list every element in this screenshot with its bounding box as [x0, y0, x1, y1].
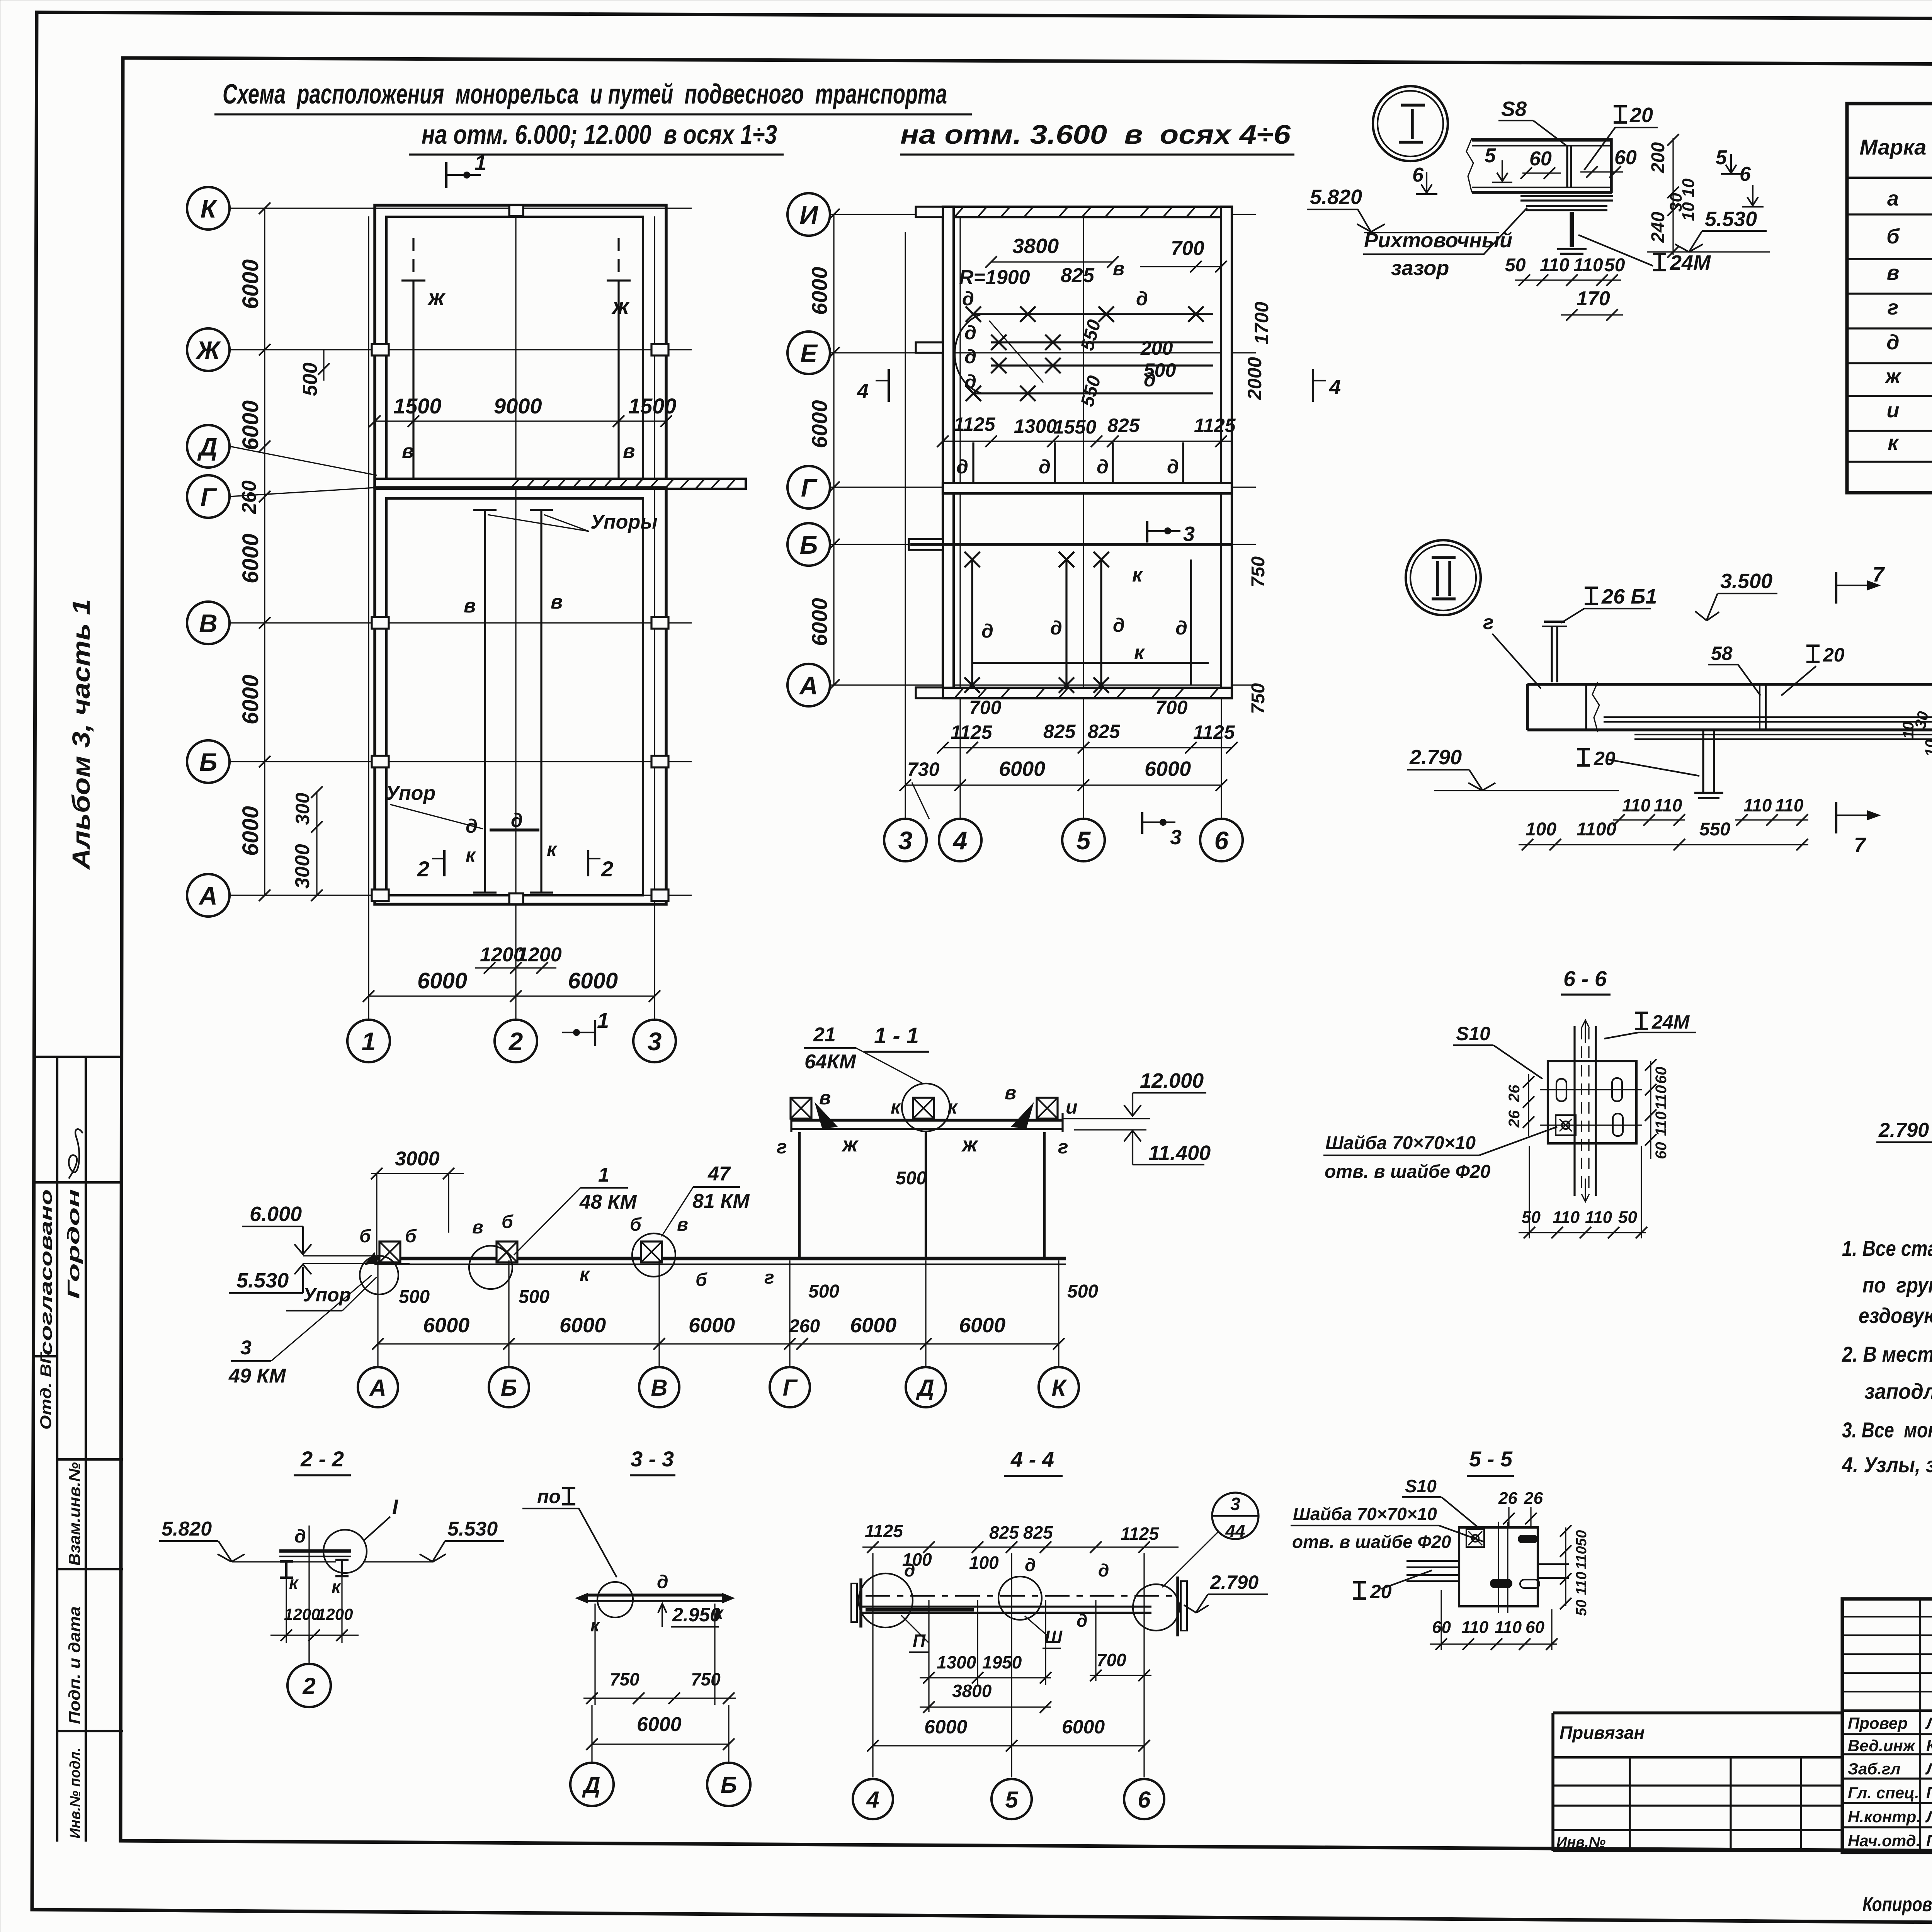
- svg-text:550: 550: [1699, 819, 1730, 840]
- svg-text:б: б: [630, 1214, 642, 1235]
- svg-text:ездовую поверхность краска: ездовую поверхность краска не наносится.: [1859, 1303, 1932, 1328]
- svg-text:S8: S8: [1501, 97, 1527, 121]
- svg-text:47: 47: [707, 1163, 731, 1185]
- svg-text:к: к: [1132, 564, 1143, 586]
- plan1 dim 500 at Zh: [323, 350, 324, 381]
- svg-text:в: в: [819, 1087, 831, 1109]
- svg-text:48 КМ: 48 КМ: [579, 1191, 637, 1213]
- 5-5 plate: [1459, 1527, 1538, 1606]
- svg-text:1200: 1200: [284, 1605, 320, 1623]
- axis circle 6b: [1200, 819, 1243, 861]
- svg-text:6000: 6000: [999, 757, 1045, 781]
- 2-2 axis circle 2: [308, 1635, 310, 1664]
- svg-text:1125: 1125: [954, 413, 996, 435]
- 6-6 dims right rotated: [1650, 1061, 1651, 1159]
- svg-text:3 - 3: 3 - 3: [631, 1447, 674, 1471]
- svg-text:100: 100: [969, 1553, 999, 1573]
- plan2 right wall: [1221, 207, 1232, 698]
- svg-text:Альбом 3, часть 1: Альбом 3, часть 1: [67, 599, 95, 870]
- svg-text:Б: Б: [199, 748, 218, 776]
- svg-text:И: И: [799, 201, 818, 229]
- svg-text:49 КМ: 49 КМ: [228, 1365, 286, 1387]
- svg-text:в: в: [677, 1214, 688, 1235]
- svg-text:6000: 6000: [689, 1314, 735, 1337]
- svg-text:3000: 3000: [395, 1148, 440, 1170]
- svg-text:6000: 6000: [238, 259, 263, 309]
- svg-text:Лазарева: Лазарева: [1925, 1808, 1932, 1826]
- plan2 lower rail: [973, 392, 1213, 394]
- svg-text:д: д: [1167, 456, 1179, 478]
- svg-text:Взам.инв.№: Взам.инв.№: [65, 1462, 83, 1566]
- svg-text:2.790: 2.790: [1210, 1571, 1259, 1593]
- plan2 axis column 4: [959, 216, 961, 819]
- svg-text:4: 4: [952, 826, 968, 855]
- svg-text:к: к: [947, 1096, 958, 1118]
- axis circle B2: [787, 523, 830, 566]
- svg-text:д: д: [964, 371, 976, 393]
- svg-text:81 КМ: 81 КМ: [692, 1190, 750, 1213]
- svg-text:6000: 6000: [807, 267, 832, 315]
- svg-text:1300: 1300: [1014, 415, 1057, 437]
- plan2 axis line E: [830, 352, 1256, 353]
- detail II marker circle: [1406, 540, 1481, 615]
- axis circle 5b: [1062, 819, 1105, 861]
- svg-text:3: 3: [240, 1337, 252, 1359]
- detail II label I26B1: [1585, 588, 1598, 604]
- svg-text:500: 500: [399, 1287, 430, 1307]
- 5-5 label I20: [1353, 1582, 1366, 1599]
- 4-4 end plates: [859, 1578, 862, 1628]
- plan2 leader 3 to 730: [912, 782, 929, 819]
- svg-text:Заб.гл: Заб.гл: [1848, 1760, 1901, 1778]
- svg-text:2: 2: [302, 1673, 315, 1699]
- svg-text:в: в: [1887, 261, 1900, 284]
- svg-text:в: в: [402, 440, 414, 463]
- svg-text:а: а: [1887, 187, 1899, 210]
- svg-text:50: 50: [1573, 1530, 1590, 1546]
- svg-text:1500: 1500: [628, 394, 677, 418]
- svg-text:д: д: [657, 1572, 668, 1592]
- svg-text:5.530: 5.530: [236, 1269, 289, 1292]
- plan1 axis column line 1: [368, 216, 369, 1020]
- svg-text:ж: ж: [841, 1133, 859, 1156]
- svg-text:64КМ: 64КМ: [804, 1051, 857, 1073]
- svg-text:1. Все стальные конструкции: 1. Все стальные конструкции окрасить мас…: [1842, 1236, 1932, 1260]
- 1-1 axis circle A: [358, 1367, 398, 1407]
- plan1 beam d cross: [490, 828, 539, 832]
- svg-text:700: 700: [1155, 697, 1188, 718]
- svg-text:50: 50: [1573, 1600, 1590, 1616]
- svg-text:58: 58: [1711, 643, 1733, 664]
- svg-text:6000: 6000: [417, 968, 467, 993]
- svg-text:50: 50: [1604, 255, 1625, 276]
- svg-text:б: б: [1886, 225, 1900, 248]
- title block frame: [1842, 1599, 1932, 1852]
- svg-text:3: 3: [1230, 1494, 1240, 1514]
- plan1 axis line Zh: [230, 349, 692, 350]
- plan2 vertical dim chain: [833, 214, 834, 685]
- 1-1 upper beam el12: [791, 1119, 1063, 1122]
- svg-text:6000: 6000: [850, 1314, 896, 1337]
- 4-4 rail dashdot: [866, 1595, 1175, 1597]
- svg-text:260: 260: [789, 1316, 820, 1337]
- svg-text:I: I: [392, 1495, 398, 1519]
- plan1 upper block walls: [375, 205, 666, 488]
- svg-text:6: 6: [1412, 164, 1424, 186]
- plan1 wall at G with hatch: [375, 479, 746, 489]
- detail I label I24M: [1653, 254, 1666, 270]
- svg-text:в: в: [551, 591, 563, 613]
- detail I label I20: [1614, 106, 1627, 122]
- svg-text:3.500: 3.500: [1720, 570, 1772, 593]
- svg-text:Капустин: Капустин: [1926, 1736, 1932, 1755]
- plan1 dim 300 3000: [316, 792, 317, 895]
- svg-text:д: д: [981, 620, 993, 642]
- plan2 section flag 4 left: [888, 369, 890, 402]
- svg-text:6000: 6000: [959, 1314, 1005, 1337]
- svg-text:Г: Г: [801, 473, 818, 502]
- svg-text:г: г: [764, 1267, 774, 1288]
- svg-text:1550: 1550: [1053, 416, 1096, 438]
- 1-1 columns: [798, 1132, 801, 1259]
- svg-text:110: 110: [1653, 1111, 1670, 1136]
- svg-text:Письман: Письман: [1926, 1832, 1932, 1850]
- svg-text:1125: 1125: [1193, 721, 1235, 743]
- svg-text:110: 110: [1573, 255, 1603, 276]
- svg-text:Упоры: Упоры: [590, 511, 658, 533]
- plan2 axis column 5: [1083, 216, 1084, 819]
- svg-text:заподлица с основным металл: заподлица с основным металлом.: [1864, 1379, 1932, 1403]
- plan1 wall pier marks: [372, 344, 389, 355]
- axis circle G2: [787, 466, 830, 509]
- plan1 dim 6000 6000 bottom: [369, 995, 655, 997]
- plan1 lower beams k: [484, 510, 486, 893]
- detail I stiffener S8: [1566, 146, 1568, 187]
- svg-text:В: В: [199, 609, 218, 638]
- axis circle 3: [633, 1020, 676, 1062]
- svg-text:к: к: [1888, 431, 1899, 454]
- svg-text:6: 6: [1138, 1787, 1151, 1813]
- svg-text:д: д: [1886, 331, 1899, 354]
- svg-text:60: 60: [1653, 1067, 1670, 1084]
- svg-text:6000: 6000: [1145, 757, 1191, 781]
- svg-text:зазор: зазор: [1391, 257, 1449, 280]
- svg-text:д: д: [1025, 1555, 1036, 1575]
- svg-text:Ж: Ж: [195, 336, 221, 364]
- svg-text:6000: 6000: [238, 400, 263, 450]
- svg-text:24М: 24М: [1651, 1011, 1690, 1033]
- svg-text:9000: 9000: [494, 394, 542, 418]
- 6-6 plate: [1548, 1061, 1636, 1143]
- svg-text:10: 10: [1922, 740, 1932, 757]
- axis circle B: [187, 740, 230, 783]
- svg-text:6.000: 6.000: [250, 1202, 302, 1226]
- svg-text:на отм. 6.000; 12.000 в осях: на отм. 6.000; 12.000 в осях 1÷3: [422, 119, 777, 150]
- svg-text:ж: ж: [427, 285, 446, 310]
- svg-text:110: 110: [1553, 1208, 1580, 1227]
- svg-text:по: по: [537, 1486, 561, 1507]
- svg-text:12.000: 12.000: [1140, 1069, 1204, 1092]
- svg-text:в: в: [1113, 258, 1124, 279]
- plan2 axis line A2: [830, 684, 1256, 685]
- svg-text:2 - 2: 2 - 2: [300, 1447, 344, 1471]
- svg-text:3: 3: [898, 826, 913, 855]
- svg-text:21: 21: [813, 1024, 836, 1046]
- svg-text:110: 110: [1585, 1208, 1612, 1227]
- svg-text:б: б: [359, 1226, 371, 1247]
- 6-6 label I24M: [1635, 1013, 1648, 1029]
- svg-text:110: 110: [1540, 255, 1570, 276]
- plan1 axis line D: [230, 446, 377, 475]
- svg-text:170: 170: [1577, 287, 1610, 310]
- svg-text:6000: 6000: [924, 1716, 967, 1738]
- plan2 left wall: [943, 207, 954, 698]
- svg-text:260: 260: [238, 480, 260, 514]
- svg-text:1500: 1500: [393, 394, 442, 418]
- svg-text:1125: 1125: [1121, 1524, 1159, 1544]
- svg-text:S10: S10: [1405, 1476, 1437, 1496]
- plan2 pilasters: [916, 207, 943, 217]
- svg-text:300: 300: [292, 793, 313, 825]
- axis circle 1: [347, 1020, 390, 1062]
- svg-text:500: 500: [1144, 359, 1176, 381]
- svg-text:В: В: [651, 1375, 667, 1401]
- detail I beam g top flange: [1472, 138, 1612, 142]
- left margin stamp table lines: [33, 1056, 123, 1058]
- svg-text:К: К: [1052, 1375, 1068, 1401]
- svg-text:110: 110: [1573, 1571, 1590, 1595]
- detail I beam g bottom flange: [1472, 187, 1611, 188]
- 6-6 slots and washer: [1556, 1079, 1566, 1101]
- 4-4 projection lines: [928, 1600, 929, 1712]
- plan1 vertical dim chain: [264, 208, 265, 895]
- svg-text:д: д: [964, 346, 976, 367]
- svg-text:д: д: [1039, 456, 1051, 478]
- svg-text:6000: 6000: [807, 400, 832, 448]
- 1-1 axis circle V: [639, 1367, 679, 1407]
- svg-text:2: 2: [601, 857, 613, 881]
- plan1 section flag 1 top: [445, 162, 447, 188]
- 3-3 beam: [587, 1594, 723, 1597]
- svg-text:5: 5: [1077, 826, 1091, 855]
- 4-4 bubble 3/44: [1212, 1493, 1259, 1539]
- svg-text:к: к: [580, 1264, 590, 1285]
- svg-text:4: 4: [866, 1787, 879, 1813]
- svg-text:110: 110: [1654, 795, 1682, 815]
- svg-text:5.530: 5.530: [447, 1518, 498, 1540]
- plan1 axis column line 3: [654, 216, 655, 1020]
- detail II section mark 7 top: [1835, 572, 1837, 604]
- svg-text:Упор: Упор: [303, 1284, 351, 1306]
- svg-text:R=1900: R=1900: [959, 266, 1030, 289]
- svg-text:А: А: [799, 671, 818, 700]
- svg-text:Левина: Левина: [1925, 1714, 1932, 1732]
- svg-text:1300: 1300: [937, 1652, 976, 1672]
- svg-text:100: 100: [1526, 819, 1556, 840]
- detail I beam end plate: [1610, 138, 1613, 193]
- plan1 axis line K: [230, 207, 692, 209]
- svg-text:500: 500: [808, 1281, 839, 1302]
- svg-text:д: д: [1113, 614, 1125, 636]
- svg-text:д: д: [1050, 617, 1062, 639]
- svg-text:Д: Д: [582, 1772, 600, 1798]
- svg-text:3. Все монтажные соединения: 3. Все монтажные соединения на болтах и …: [1842, 1418, 1932, 1442]
- svg-text:50: 50: [1618, 1208, 1637, 1227]
- svg-text:500: 500: [896, 1168, 927, 1189]
- 1-1 axis circle G: [770, 1367, 810, 1407]
- svg-text:10 10: 10 10: [1679, 178, 1698, 221]
- plan2 rail curve R1900: [955, 314, 981, 393]
- axis circle 2: [495, 1020, 537, 1062]
- svg-text:60: 60: [1529, 148, 1552, 170]
- plan1 monorail beam Zh right: [617, 281, 619, 479]
- svg-text:825: 825: [1043, 721, 1076, 742]
- detail I rail I24M: [1570, 212, 1574, 247]
- svg-text:д: д: [962, 288, 974, 310]
- 4-4 axis circles 4 5 6: [853, 1779, 893, 1819]
- 2-2 detail circle and label I: [323, 1530, 367, 1573]
- svg-text:к: к: [466, 844, 476, 866]
- 4-4 projection lines: [872, 1553, 873, 1777]
- svg-text:и: и: [1066, 1096, 1078, 1118]
- axis circle Zh: [187, 328, 230, 371]
- plan1 monorail beam Zh left: [412, 281, 414, 479]
- svg-text:Пронин: Пронин: [1926, 1784, 1932, 1802]
- svg-text:825: 825: [1088, 721, 1121, 742]
- plan2 upper rail top: [973, 313, 1213, 315]
- svg-text:7: 7: [1872, 563, 1885, 586]
- svg-text:д: д: [511, 810, 523, 831]
- plan1 axis line B: [230, 761, 692, 762]
- svg-text:1125: 1125: [865, 1521, 903, 1541]
- 1-1 axis circle K: [1039, 1367, 1079, 1407]
- svg-text:6000: 6000: [423, 1314, 469, 1337]
- plan1 axis line G: [230, 488, 375, 497]
- svg-text:6000: 6000: [1062, 1716, 1105, 1738]
- svg-text:4: 4: [1329, 376, 1341, 399]
- plan1 lower block walls: [375, 488, 666, 904]
- svg-text:в: в: [623, 440, 635, 463]
- axis circle G: [187, 475, 230, 518]
- svg-text:Отд. ВГ: Отд. ВГ: [37, 1351, 54, 1430]
- svg-text:700: 700: [1097, 1650, 1126, 1670]
- svg-text:Г: Г: [201, 483, 217, 511]
- svg-text:1 - 1: 1 - 1: [874, 1023, 919, 1048]
- svg-text:110: 110: [1495, 1618, 1522, 1637]
- svg-text:60: 60: [1653, 1142, 1670, 1160]
- axis circle 3b: [884, 819, 927, 861]
- 1-1 axis projection lines: [377, 1260, 378, 1366]
- svg-text:750: 750: [691, 1669, 721, 1689]
- plan1 section flag 2 left: [443, 850, 446, 876]
- svg-text:на отм. 3.600 в осях 4÷6: на отм. 3.600 в осях 4÷6: [900, 119, 1291, 150]
- detail II label I20 top: [1806, 646, 1820, 662]
- svg-text:А: А: [369, 1375, 386, 1401]
- plan2 rail pair: [991, 341, 1213, 343]
- svg-text:1950: 1950: [982, 1652, 1022, 1672]
- svg-text:Копировал Исаева: Копировал Исаева: [1862, 1893, 1932, 1916]
- svg-text:к: к: [1134, 641, 1145, 664]
- svg-text:825: 825: [1061, 264, 1095, 287]
- svg-text:и: и: [1887, 399, 1900, 422]
- plan2 axis line B2: [830, 544, 1256, 545]
- plan2 stub beams d: [972, 442, 974, 483]
- svg-text:К: К: [201, 194, 218, 223]
- 1-1 main beam el6: [374, 1257, 1066, 1260]
- svg-text:825: 825: [1023, 1522, 1053, 1543]
- svg-text:700: 700: [1171, 237, 1204, 260]
- svg-text:5.530: 5.530: [1705, 207, 1757, 231]
- plan2 section flag 3 bottom: [1141, 812, 1143, 834]
- svg-text:26: 26: [1498, 1489, 1517, 1508]
- plan1 section flag 1 bottom: [594, 1020, 596, 1046]
- 3-3 detail circle: [597, 1582, 633, 1617]
- svg-text:2. В местах монтажных стыков: 2. В местах монтажных стыков монорельса …: [1842, 1342, 1932, 1366]
- svg-text:60: 60: [1526, 1618, 1544, 1637]
- svg-text:Б: Б: [501, 1375, 517, 1401]
- svg-text:20: 20: [1594, 748, 1616, 769]
- svg-text:б: б: [405, 1226, 417, 1247]
- svg-text:26: 26: [1524, 1489, 1543, 1508]
- svg-text:г: г: [1483, 611, 1494, 634]
- svg-text:Ш: Ш: [1045, 1627, 1063, 1647]
- svg-text:Подп. и дата: Подп. и дата: [65, 1606, 83, 1724]
- svg-text:1125: 1125: [1194, 415, 1236, 436]
- table frame: [1847, 104, 1932, 493]
- svg-text:г: г: [777, 1136, 787, 1158]
- 2-2 beam: [279, 1549, 351, 1553]
- plan1 section flag 2 right: [587, 850, 589, 876]
- svg-text:60: 60: [1614, 146, 1637, 169]
- plan2 lower room beams d: [971, 560, 973, 685]
- plan2 axis column 3: [905, 232, 906, 819]
- svg-text:240: 240: [1648, 212, 1668, 243]
- svg-text:6000: 6000: [560, 1314, 606, 1337]
- axis circle K: [187, 187, 230, 230]
- plan1 axis column line 2: [515, 216, 516, 1020]
- svg-text:6000: 6000: [807, 598, 832, 646]
- svg-text:26 Б1: 26 Б1: [1601, 585, 1657, 608]
- svg-text:3: 3: [1183, 522, 1195, 546]
- svg-text:к: к: [332, 1577, 342, 1597]
- svg-text:1: 1: [597, 1008, 609, 1032]
- 1-1 axis circle D: [906, 1367, 946, 1407]
- svg-text:1200: 1200: [317, 1605, 353, 1623]
- svg-text:500: 500: [519, 1287, 549, 1307]
- svg-text:Провер: Провер: [1848, 1714, 1908, 1732]
- svg-text:200: 200: [1140, 337, 1173, 359]
- plan2 section flag 4 right: [1312, 369, 1314, 402]
- svg-text:2000: 2000: [1244, 357, 1265, 400]
- svg-text:д: д: [1175, 617, 1187, 639]
- svg-text:3800: 3800: [952, 1681, 992, 1701]
- svg-text:Д: Д: [197, 432, 218, 461]
- svg-text:20: 20: [1370, 1581, 1392, 1602]
- svg-text:отв. в шайбе Ф20: отв. в шайбе Ф20: [1292, 1532, 1451, 1552]
- svg-text:А: А: [198, 881, 218, 910]
- svg-text:200: 200: [1648, 142, 1668, 173]
- svg-text:500: 500: [1067, 1281, 1098, 1302]
- plan2 axis line G2: [830, 486, 1256, 488]
- svg-text:2: 2: [508, 1027, 523, 1056]
- title block signature rows: [1842, 1733, 1932, 1735]
- svg-text:ж: ж: [611, 294, 630, 319]
- 1-1 rail boxes upper: [791, 1098, 811, 1119]
- svg-text:6 - 6: 6 - 6: [1563, 966, 1607, 991]
- title block verticals: [1919, 1599, 1921, 1852]
- svg-text:2: 2: [417, 857, 429, 881]
- axis circle V: [187, 602, 230, 644]
